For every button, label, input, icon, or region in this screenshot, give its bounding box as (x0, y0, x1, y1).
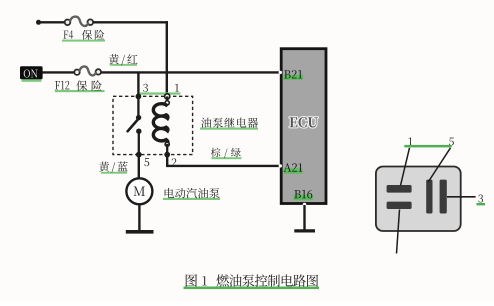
connector terminal 5 (left vertical blade) (426, 180, 432, 214)
label 黄/红 wire colour (109, 54, 138, 66)
wire pin 5 to motor (138, 155, 140, 179)
ground (ECU) (294, 229, 315, 232)
label relay pin 1 (175, 84, 179, 92)
relay K (dashed outline) 油泵继电器 (113, 96, 193, 154)
wire battery to fuse F4 (38, 21, 65, 23)
ECU name text (290, 117, 318, 127)
ECU pin B16 node (303, 203, 307, 207)
green underline pins 3-1 (139, 92, 180, 94)
label relay pin 2 (172, 158, 177, 166)
node battery feed dot (36, 20, 41, 25)
label 电动汽油泵 (163, 188, 220, 200)
relay connector body (376, 167, 461, 232)
leader line pin 3 (447, 196, 476, 198)
label connector pin 5 (449, 138, 454, 146)
label 油泵继电器 (200, 118, 258, 130)
wire corner down to relay pin 1 (166, 21, 168, 96)
label 黄/蓝 wire colour (99, 162, 128, 174)
connector terminal 1 (top blade) (387, 185, 412, 193)
wire motor to ground (138, 204, 140, 230)
wire branch down to relay pin 3 (137, 72, 139, 96)
label B16 (294, 190, 314, 200)
ECU box (281, 49, 326, 204)
label relay pin 5 (144, 158, 149, 166)
wire fuse F4 to corner (93, 21, 168, 23)
connector terminal 2 (bottom blade) (387, 202, 412, 209)
label A21 (284, 163, 303, 174)
connector terminal 3 (right vertical blade) (440, 180, 447, 214)
relay terminal node pin 2 (164, 152, 170, 158)
relay terminal node pin 1 (165, 94, 170, 99)
label B21 (284, 70, 304, 80)
wire relay pin 2 to ECU A21 (167, 155, 280, 166)
ECU pin A21 node (279, 164, 282, 167)
leader line pin 5 (428, 148, 450, 182)
relay coil (pins 1-2) (153, 96, 169, 154)
fuse F4 (65, 17, 93, 26)
ECU pin B21 node (279, 71, 282, 74)
wire F12 to ECU B21 (101, 71, 280, 73)
switch ON (ignition) (20, 66, 43, 82)
title 图1 燃油泵控制电路图 (184, 274, 320, 289)
label 棕/绿 wire colour (211, 148, 242, 160)
wire ECU B16 to ground (303, 205, 305, 230)
label F12 保险 (55, 80, 105, 92)
relay switch contact (pins 3-5) (128, 96, 142, 154)
relay terminal node pin 5 (136, 152, 142, 158)
label F4 保险 (62, 30, 105, 42)
motor M (fuel pump) (126, 178, 152, 204)
ground (pump) (126, 230, 154, 234)
label connector pin 3 (477, 194, 486, 205)
fuse F12 (74, 66, 101, 75)
relay terminal node pin 3 (136, 94, 142, 100)
green underline pins 1-5 (404, 145, 451, 148)
wire ON to fuse F12 (43, 71, 75, 73)
leader line pin 1 (401, 148, 410, 186)
label connector pin 1 (409, 138, 413, 146)
leader line pin 2 (bottom) (397, 210, 400, 254)
label relay pin 3 (143, 84, 148, 92)
